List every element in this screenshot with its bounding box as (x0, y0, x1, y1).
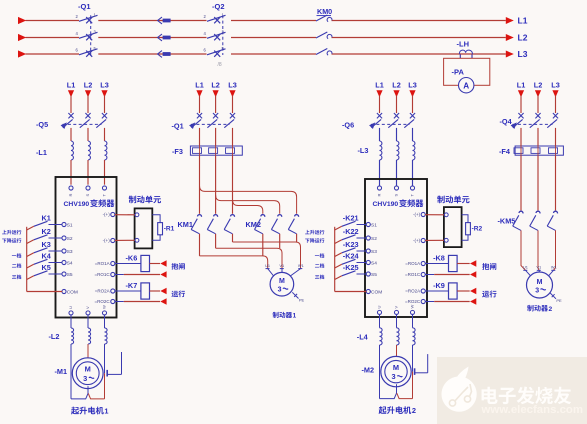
wire KM1 pole3 out (232, 234, 234, 242)
contactor KM5 pole 3 (547, 211, 557, 230)
reactor -L2 coil 3 (105, 328, 108, 344)
wire COM left (27, 291, 63, 293)
operator arrow -Q5 (61, 122, 67, 129)
fuse -F3 element 1 (193, 148, 202, 154)
brake motor 2 (M 3~) (527, 272, 553, 298)
inverter U2 input pin S (394, 186, 399, 197)
current transformer -LH symbol (459, 50, 472, 54)
breaker -Q1 pole 3 (79, 49, 98, 57)
svg-text:R: R (68, 194, 73, 197)
svg-text:KM0: KM0 (317, 7, 332, 16)
function label 一档 (12, 254, 17, 257)
switch K3 (34, 248, 62, 253)
svg-text:=RO1C: =RO1C (405, 272, 421, 277)
wire KM5 pole3 to W1 terminal (554, 230, 556, 270)
destination arrow L1 (506, 17, 514, 24)
wire branch K1 (27, 226, 34, 230)
wire right phase to motor loop (412, 345, 414, 399)
wire -Q1 to -F3 phase 2 (215, 128, 217, 146)
motor -M1 circles (72, 358, 103, 389)
svg-text:W1: W1 (298, 263, 304, 268)
function label 下降运行 (2, 239, 6, 243)
lead W1 to brake motor 2 (549, 270, 554, 276)
arrow -K9 return (470, 298, 476, 305)
svg-text:=RO2C: =RO2C (95, 299, 111, 304)
inverter U1 input pin S (85, 186, 90, 197)
svg-text:=RO1C: =RO1C (95, 272, 111, 277)
wire branch -K25 (335, 276, 342, 280)
winding loop left -M1 (71, 386, 88, 399)
switch K2 (34, 235, 62, 240)
svg-text:-M2: -M2 (362, 366, 375, 375)
wire PB to BU1 (115, 239, 136, 241)
svg-text:V1: V1 (536, 265, 541, 270)
breaker -Q5 pole 2 (80, 113, 91, 128)
inverter U1 output pin V (85, 306, 90, 315)
svg-text:-Q5: -Q5 (36, 120, 48, 129)
svg-text:L1: L1 (67, 80, 76, 89)
fuse -F3 element 2 (209, 148, 218, 154)
svg-text:U1: U1 (523, 265, 528, 270)
label brake 1 (273, 312, 297, 320)
svg-text:A: A (463, 81, 469, 90)
PE conductor -M2 (415, 354, 428, 375)
pin numbers -Q1 pole 2 (76, 30, 97, 36)
svg-text:U1: U1 (265, 263, 270, 268)
wire left phase to motor loop (379, 345, 381, 399)
svg-text:K4: K4 (42, 252, 52, 261)
svg-text:/8: /8 (218, 62, 222, 68)
terminal V1 brake motor 1 (279, 263, 284, 269)
wire rail L3 segments (26, 53, 506, 55)
PE lead brake motor 1 (292, 292, 304, 302)
brake unit BU2 box (444, 207, 462, 247)
contactor KM2 pole 2 (271, 215, 281, 234)
relay coil -K6 (141, 255, 150, 271)
wire crossover phase 1 to KM2 (200, 186, 297, 214)
svg-text:V1: V1 (279, 263, 284, 268)
PE lead brake motor 2 (550, 293, 562, 303)
wire crossover phase 3 to KM2 (233, 200, 263, 214)
wire -F3 through 2 (215, 146, 217, 155)
svg-text:L3: L3 (408, 80, 417, 89)
wire -Q5 out phase 2 (87, 128, 89, 141)
output label 运行 (482, 291, 489, 298)
switch K4 (34, 259, 62, 264)
switch K5 (34, 271, 62, 276)
svg-text:-(+): -(+) (413, 238, 421, 243)
feeder down arrow L3 (101, 90, 107, 97)
svg-text:-LH: -LH (457, 40, 470, 49)
inverter U1 pin S3 (62, 249, 73, 255)
svg-text:=RO1A: =RO1A (405, 261, 420, 266)
terminal W1 brake motor 1 (298, 263, 304, 269)
wire 起升电机2 phase 1 from inverter (379, 314, 381, 328)
wire 起升电机2 phase 2 from inverter (396, 314, 398, 328)
contactor KM5 pole 1 (513, 211, 523, 230)
source arrow rail L3 (18, 50, 26, 57)
pin numbers -Q1 pole 1 (76, 13, 97, 19)
svg-text:W1: W1 (551, 265, 557, 270)
wire bus phase3 to W1 terminal (233, 242, 301, 269)
inverter U2 output pin W (410, 305, 415, 315)
arrow -K8 return (470, 271, 476, 278)
svg-text:L1: L1 (375, 80, 384, 89)
control bus left (26, 227, 28, 292)
wire -F3 to KM1 pole 2 (215, 155, 217, 214)
svg-text:L3: L3 (518, 49, 528, 59)
wire rail L1 segments (26, 20, 506, 22)
svg-text:-K21: -K21 (343, 214, 359, 223)
ammeter -PA (459, 78, 474, 93)
watermark logo (442, 367, 477, 412)
contactor KM0 label (317, 7, 333, 16)
svg-text:S: S (394, 194, 399, 197)
wire resistor -R1 return (152, 235, 160, 241)
switch -K25 (342, 271, 367, 276)
wire KM2 pole2 out (279, 234, 281, 248)
contactor KM2 pole 3 (288, 215, 298, 234)
wire phase L2 drop (215, 96, 217, 114)
svg-text:COM: COM (67, 289, 78, 295)
motor -M2 circles (381, 356, 411, 386)
inverter U1 pin S5 (62, 272, 73, 278)
operator arrow -Q6 (369, 122, 375, 129)
svg-text:-R2: -R2 (472, 225, 483, 232)
svg-text:L1: L1 (518, 16, 528, 26)
svg-text:-Q1: -Q1 (78, 2, 91, 11)
brake unit BU1 box (135, 208, 153, 248)
svg-text:S1: S1 (67, 222, 73, 228)
breaker -Q1 pole 3 (224, 113, 235, 128)
svg-text:M: M (393, 363, 399, 372)
wire -L3 to U2 box phase 1 (379, 160, 381, 187)
terminal U1 brake motor 2 (523, 265, 528, 271)
feeder down arrow L3 (552, 90, 558, 97)
winding loop right -M1 (88, 394, 104, 399)
inverter U2 output pin U (377, 306, 382, 315)
reactor -L3 coil 3 (413, 141, 415, 160)
svg-text:S2: S2 (371, 236, 377, 242)
svg-text:=RO2C: =RO2C (405, 299, 421, 304)
breaker -Q6 pole 2 (388, 113, 399, 128)
winding loop left -M2 (380, 384, 397, 398)
switch K1 (34, 221, 62, 226)
arrow -K8 out (470, 260, 476, 267)
svg-text:S5: S5 (371, 272, 377, 278)
inverter U1 input pin T (102, 186, 107, 197)
label 起升电机2 (379, 406, 416, 415)
wire BU2 to resistor -R2 (462, 215, 468, 223)
wire branch K4 (27, 264, 34, 268)
feeder down arrow L1 (196, 90, 202, 97)
wire branch -K21 (335, 226, 342, 230)
wire bus phase2 to V1 terminal (216, 248, 282, 268)
reactor -L1 coil 2 (88, 141, 90, 160)
wire -F3 to KM1 pole 3 (232, 155, 234, 214)
breaker -Q1 pole 2 (207, 113, 218, 128)
operator arrow -Q1 (189, 122, 195, 129)
svg-text:-M1: -M1 (55, 367, 68, 376)
wire COM right (335, 291, 367, 293)
reactor -L1 coil 1 (71, 141, 73, 160)
terminal W1 brake motor 2 (551, 265, 557, 271)
switch -K23 (342, 248, 367, 253)
inverter U1 pin S2 (62, 236, 73, 242)
label 起升电机1 (71, 407, 108, 416)
inverter U2 box (365, 179, 427, 317)
svg-text:-Q4: -Q4 (500, 117, 513, 126)
inverter U1 output pin W (102, 305, 107, 315)
brake unit BU2 pin 2 (444, 238, 448, 242)
wire phase L1 drop (379, 96, 381, 114)
svg-text:M: M (279, 278, 285, 285)
wire -F4 to KM5 pole 1 (520, 155, 522, 210)
wire branch K2 (27, 240, 34, 244)
contactor KM0 pole 1 (316, 15, 332, 22)
svg-text:L2: L2 (392, 80, 401, 89)
wire -Q6 out phase 3 (412, 128, 414, 141)
inverter U2 pin =RO2A (405, 289, 425, 294)
svg-text:S4: S4 (371, 260, 377, 266)
wire bus phase1 to U1 terminal (200, 256, 268, 269)
inverter U2 pin S3 (366, 249, 377, 255)
svg-text:3: 3 (391, 372, 395, 381)
inverter U2 pin S4 (366, 260, 377, 266)
wire 起升电机2 phase 3 from inverter (412, 314, 414, 328)
svg-text:S: S (85, 194, 90, 197)
wire -L1 to U1 box phase 2 (87, 160, 89, 185)
reactor -L4 coil 2 (397, 328, 400, 345)
connector on rail L2 (158, 34, 171, 41)
function label 三档 (12, 275, 16, 279)
breaker -Q4 pole 3 (547, 113, 558, 128)
watermark background (437, 357, 587, 424)
wire U1 pin C out (115, 301, 160, 303)
svg-text:L3: L3 (100, 80, 109, 89)
inverter U1 pin =RO1C (95, 272, 115, 277)
wire -Q1 to -F3 phase 1 (199, 128, 201, 146)
brake motor 1 (M 3~) (270, 272, 294, 296)
wire U2 pin C out (425, 301, 470, 303)
arrow -K7 out (160, 288, 166, 295)
destination arrow L2 (506, 34, 514, 41)
wire -L1 to U1 box phase 1 (70, 160, 72, 185)
svg-text:L2: L2 (84, 80, 93, 89)
output label 抱闸 (482, 263, 489, 270)
svg-text:S3: S3 (371, 249, 377, 255)
wire 起升电机1 phase 2 from inverter (87, 315, 89, 328)
control bus right (334, 227, 336, 292)
wire -Q6 out phase 2 (396, 128, 398, 141)
svg-text:-Q2: -Q2 (212, 2, 225, 11)
pin numbers -Q2 pole 1 (204, 13, 225, 19)
resistor -R2 (466, 223, 471, 235)
wire -L3 to U2 box phase 3 (412, 160, 414, 187)
fuse block -F4 outline (515, 146, 563, 155)
wire -Q5 out phase 1 (70, 128, 72, 141)
wire phase L3 drop (232, 96, 234, 114)
svg-text:=RO2A: =RO2A (95, 289, 110, 294)
inverter U2 pin S5 (366, 272, 377, 278)
svg-text:V: V (394, 306, 399, 309)
svg-text:V: V (85, 306, 90, 309)
inverter U2 pin S2 (366, 236, 377, 242)
svg-text:3: 3 (535, 287, 539, 294)
contactor KM1 pole 1 (191, 215, 201, 234)
reactor -L1 coil 3 (105, 141, 107, 160)
inverter U2 pin =RO1A (405, 261, 425, 266)
inverter U1 pin =RO2A (95, 289, 115, 294)
svg-text:M: M (85, 364, 91, 373)
linkage dashes -Q6 (371, 123, 410, 125)
inverter U1 title CJK (90, 199, 98, 207)
wire -Q5 out phase 3 (104, 128, 106, 141)
svg-text:-K22: -K22 (343, 227, 359, 236)
output label 运行 (171, 291, 178, 297)
switch -K21 (342, 221, 367, 226)
svg-text:-L1: -L1 (36, 148, 47, 157)
brake unit BU1 pin 2 (135, 238, 139, 242)
svg-text:L1: L1 (517, 80, 526, 89)
svg-text:K2: K2 (42, 227, 51, 236)
svg-text:-K6: -K6 (126, 253, 138, 262)
wire 起升电机1 phase 3 from inverter (104, 315, 106, 328)
svg-text:L1: L1 (195, 80, 204, 89)
svg-text:1: 1 (293, 312, 297, 319)
linkage dashes -Q1 (191, 123, 230, 125)
wire P+ to BU2 (425, 214, 444, 216)
svg-text:K3: K3 (42, 240, 51, 249)
brake unit BU2 label (437, 196, 445, 204)
svg-text:-Q6: -Q6 (342, 121, 354, 130)
svg-text:-Q1: -Q1 (172, 122, 184, 131)
breaker -Q4 pole 2 (530, 113, 541, 128)
inverter U1 pin -(+) (103, 238, 115, 243)
svg-text:-(+): -(+) (103, 238, 111, 243)
svg-text:-KM5: -KM5 (498, 217, 516, 226)
svg-text:S1: S1 (371, 222, 377, 228)
svg-text:-K23: -K23 (343, 240, 359, 249)
svg-text:-F4: -F4 (499, 147, 511, 156)
label brake 2 (527, 305, 552, 313)
inverter U2 pin -(+) (413, 238, 425, 243)
reactor -L3 coil 2 (397, 141, 399, 160)
svg-text:S3: S3 (67, 249, 73, 255)
contactor KM1 pole 3 (224, 215, 234, 234)
breaker -Q2 pole 1 (207, 15, 226, 23)
wire phase L1 drop (70, 96, 72, 114)
wire branch -K23 (335, 253, 342, 257)
lead U1 to brake motor 1 (268, 269, 274, 276)
wire BU1 to resistor -R1 (152, 215, 160, 223)
contactor KM5 pole 2 (530, 211, 540, 230)
wire 起升电机1 phase 1 from inverter (70, 315, 72, 328)
svg-text:-(+): -(+) (103, 212, 111, 217)
inverter U1 pin S1 (62, 222, 73, 228)
wire phase L2 drop (537, 96, 539, 114)
source arrow rail L2 (18, 34, 26, 41)
pin numbers -Q2 pole 3 (204, 46, 225, 52)
wire -F4 through 1 (520, 146, 522, 155)
svg-text:M: M (537, 279, 543, 286)
linkage dashes -Q4 (513, 123, 553, 125)
svg-text:www.elecfans.com: www.elecfans.com (481, 404, 584, 416)
svg-text:KM1: KM1 (178, 220, 193, 229)
output label 抱闸 (171, 263, 178, 270)
wire -LH to -PA risers (460, 54, 472, 58)
wire branch -K22 (335, 240, 342, 244)
watermark text CJK (482, 387, 498, 404)
svg-text:-K7: -K7 (126, 281, 138, 290)
fuse -F4 element 3 (549, 148, 558, 154)
arrow -K7 return (160, 298, 166, 305)
reactor -L4 coil 1 (380, 328, 383, 345)
wire KM2 pole3 out (296, 234, 298, 242)
brake unit BU1 label (129, 196, 137, 204)
wire KM1 pole2 out (215, 234, 217, 248)
wire branch K3 (27, 253, 34, 257)
wire left phase to motor loop (70, 344, 72, 399)
contactor KM0 pole 3 (316, 49, 332, 56)
svg-text:PE: PE (556, 298, 562, 303)
function label 三档 (315, 275, 319, 279)
feeder down arrow L2 (535, 90, 541, 97)
svg-text:=RO1A: =RO1A (95, 261, 110, 266)
wire U2 pin C out (425, 274, 470, 276)
wire -Q6 out phase 1 (379, 128, 381, 141)
wire KM5 pole1 to U1 terminal (521, 230, 526, 270)
inverter U1 pin S4 (62, 260, 73, 266)
wire U1 pin A to coil (115, 290, 141, 292)
inverter U2 title CJK (399, 199, 407, 207)
wire -F3 through 3 (232, 146, 234, 155)
svg-text:S4: S4 (67, 260, 73, 266)
wire -F4 through 2 (537, 146, 539, 155)
linkage dashes -Q1 (90, 15, 92, 55)
wire phase L1 drop (199, 96, 201, 114)
svg-text:-R1: -R1 (164, 225, 175, 232)
switch -K24 (342, 259, 367, 264)
breaker -Q6 pole 1 (371, 113, 382, 128)
wire -F4 through 3 (555, 146, 557, 155)
svg-text:3: 3 (278, 287, 282, 294)
function label 上升运行 (2, 230, 6, 234)
inverter U2 pin COM (366, 289, 382, 295)
contactor KM1 pole 2 (207, 215, 217, 234)
svg-text:L3: L3 (228, 80, 237, 89)
fuse block -F3 outline (190, 146, 242, 155)
switch -K22 (342, 235, 367, 240)
function label 二档 (12, 264, 16, 268)
PE conductor -M1 (107, 352, 121, 377)
pin numbers -Q2 pole 2 (204, 30, 225, 36)
contactor KM0 pole 2 (316, 32, 332, 39)
terminal U1 brake motor 1 (265, 263, 270, 269)
source arrow rail L1 (18, 17, 26, 24)
brake unit BU1 pin 1 (135, 213, 139, 217)
relay coil -K7 (141, 283, 150, 299)
wire -Q1 to -F3 phase 3 (232, 128, 234, 146)
reactor -L2 coil 1 (71, 328, 74, 344)
wire phase L2 drop (396, 96, 398, 114)
svg-text:K1: K1 (42, 214, 51, 223)
svg-text:U: U (377, 306, 382, 309)
svg-text:-K25: -K25 (343, 263, 359, 272)
function label 上升运行 (305, 230, 309, 234)
wire phase L1 drop (520, 96, 522, 114)
function label 下降运行 (305, 239, 309, 243)
